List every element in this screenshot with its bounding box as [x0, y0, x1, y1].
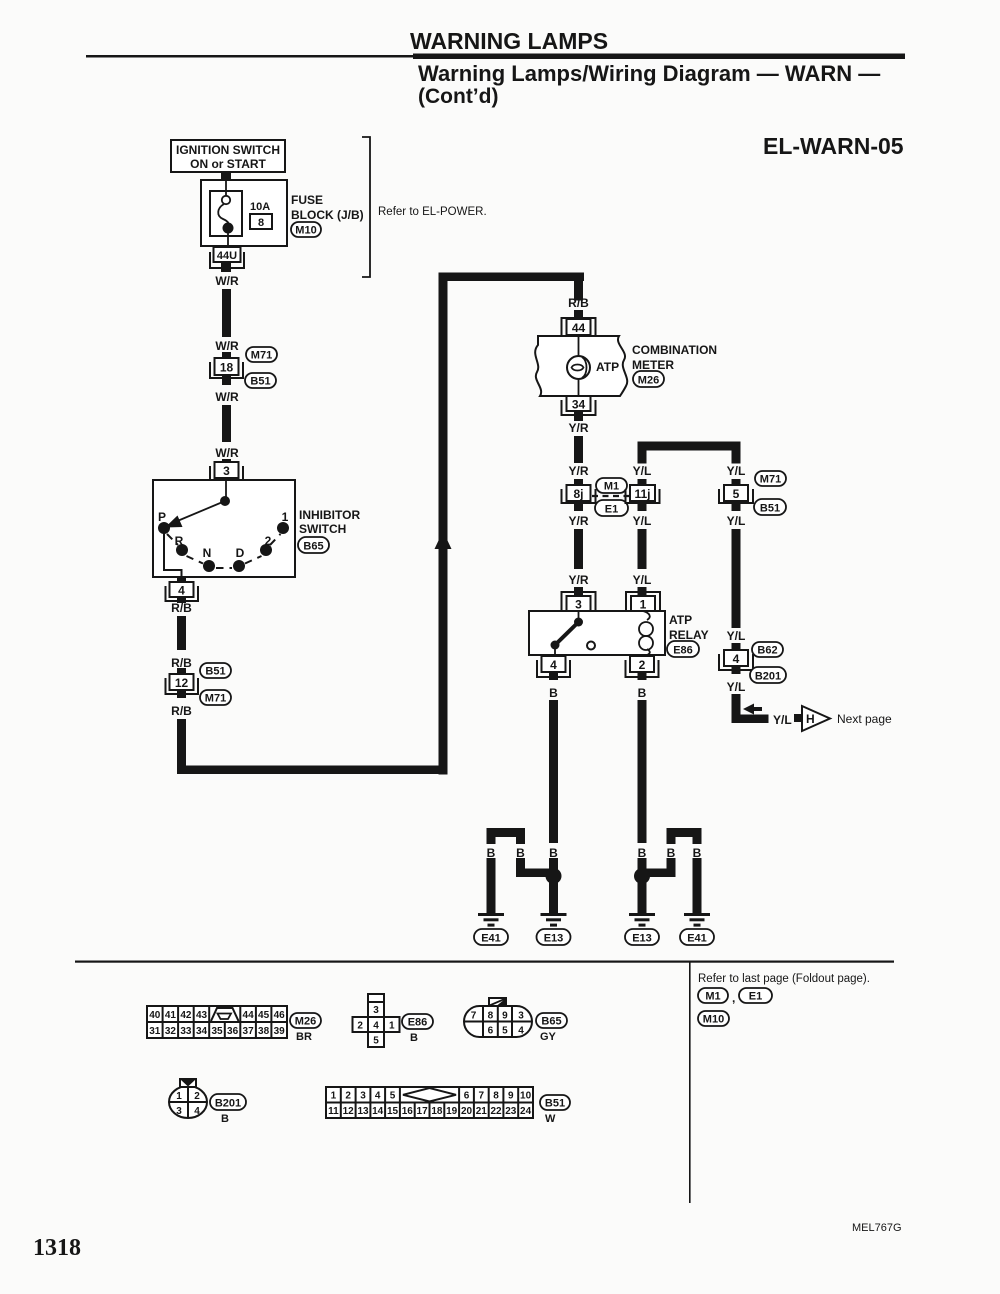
svg-text:1: 1: [640, 598, 647, 612]
svg-text:E1: E1: [749, 991, 762, 1003]
svg-text:RELAY: RELAY: [669, 628, 709, 642]
svg-text:E41: E41: [481, 933, 501, 945]
svg-text:4: 4: [178, 584, 185, 598]
svg-text:M1: M1: [604, 481, 619, 493]
svg-text:3: 3: [176, 1106, 182, 1117]
svg-text:W/R: W/R: [215, 274, 239, 288]
svg-text:5: 5: [390, 1091, 396, 1102]
svg-text:3: 3: [223, 464, 230, 478]
svg-text:Y/L: Y/L: [727, 629, 746, 643]
svg-text:Y/L: Y/L: [773, 713, 792, 727]
svg-text:12: 12: [343, 1106, 355, 1117]
svg-text:2: 2: [265, 534, 272, 548]
svg-text:19: 19: [446, 1106, 458, 1117]
svg-text:10A: 10A: [250, 201, 270, 213]
svg-text:Y/L: Y/L: [633, 573, 652, 587]
svg-text:8: 8: [488, 1011, 494, 1022]
svg-text:METER: METER: [632, 358, 674, 372]
svg-text:12: 12: [175, 676, 189, 690]
svg-text:1318: 1318: [33, 1235, 81, 1261]
svg-text:20: 20: [461, 1106, 473, 1117]
svg-text:22: 22: [490, 1106, 502, 1117]
svg-text:B: B: [549, 686, 558, 700]
svg-text:W/R: W/R: [215, 390, 239, 404]
svg-text:4: 4: [194, 1106, 200, 1117]
svg-text:42: 42: [180, 1010, 192, 1021]
svg-text:Y/L: Y/L: [633, 514, 652, 528]
svg-text:44U: 44U: [217, 250, 237, 262]
svg-text:16: 16: [402, 1106, 414, 1117]
svg-text:Y/R: Y/R: [568, 573, 588, 587]
svg-text:2: 2: [639, 658, 646, 672]
svg-text:2: 2: [345, 1091, 351, 1102]
svg-text:38: 38: [258, 1026, 270, 1037]
svg-text:17: 17: [417, 1106, 429, 1117]
svg-text:R/B: R/B: [568, 296, 589, 310]
svg-text:4: 4: [375, 1091, 381, 1102]
svg-text:ON or START: ON or START: [190, 157, 266, 171]
svg-text:E13: E13: [544, 933, 564, 945]
svg-text:4: 4: [733, 652, 740, 666]
svg-text:E13: E13: [632, 933, 652, 945]
svg-text:3: 3: [518, 1011, 524, 1022]
svg-text:INHIBITOR: INHIBITOR: [299, 508, 360, 522]
svg-text:24: 24: [520, 1106, 532, 1117]
svg-text:M71: M71: [251, 350, 272, 362]
svg-text:37: 37: [243, 1026, 255, 1037]
svg-text:B: B: [221, 1113, 229, 1125]
svg-text:Y/L: Y/L: [727, 680, 746, 694]
svg-text:FUSE: FUSE: [291, 193, 323, 207]
svg-text:4: 4: [550, 658, 557, 672]
svg-text:15: 15: [387, 1106, 399, 1117]
svg-text:MEL767G: MEL767G: [852, 1222, 902, 1234]
svg-text:34: 34: [572, 398, 586, 412]
svg-text:COMBINATION: COMBINATION: [632, 343, 717, 357]
svg-text:4: 4: [518, 1026, 524, 1037]
svg-text:M1: M1: [705, 991, 720, 1003]
svg-text:8: 8: [258, 217, 264, 229]
svg-text:6: 6: [488, 1026, 494, 1037]
svg-text:B: B: [516, 846, 525, 860]
svg-text:B201: B201: [755, 671, 781, 683]
svg-text:2: 2: [357, 1021, 363, 1032]
svg-text:1: 1: [176, 1091, 182, 1102]
svg-text:34: 34: [196, 1026, 208, 1037]
svg-text:B: B: [549, 846, 558, 860]
svg-text:BLOCK (J/B): BLOCK (J/B): [291, 208, 364, 222]
svg-text:E1: E1: [605, 504, 618, 516]
svg-text:SWITCH: SWITCH: [299, 522, 346, 536]
svg-text:B65: B65: [541, 1016, 561, 1028]
svg-text:44: 44: [572, 321, 586, 335]
svg-text:Warning Lamps/Wiring Diagram —: Warning Lamps/Wiring Diagram — WARN —: [418, 61, 880, 86]
svg-text:R/B: R/B: [171, 601, 192, 615]
svg-text:B: B: [410, 1032, 418, 1044]
svg-text:GY: GY: [540, 1031, 557, 1043]
svg-text:R: R: [175, 534, 184, 548]
svg-text:R/B: R/B: [171, 656, 192, 670]
svg-text:B51: B51: [760, 503, 780, 515]
svg-text:B: B: [487, 846, 496, 860]
svg-text:Y/R: Y/R: [568, 464, 588, 478]
svg-text:Y/L: Y/L: [633, 464, 652, 478]
svg-text:23: 23: [505, 1106, 517, 1117]
svg-text:8: 8: [493, 1091, 499, 1102]
svg-text:B201: B201: [215, 1098, 241, 1110]
svg-text:M71: M71: [760, 474, 781, 486]
svg-text:R/B: R/B: [171, 704, 192, 718]
svg-text:M26: M26: [295, 1016, 316, 1028]
svg-text:Y/R: Y/R: [568, 514, 588, 528]
svg-text:14: 14: [372, 1106, 384, 1117]
svg-text:9: 9: [502, 1011, 508, 1022]
svg-text:W/R: W/R: [215, 339, 239, 353]
svg-text:1: 1: [331, 1091, 337, 1102]
svg-text:BR: BR: [296, 1031, 312, 1043]
svg-text:13: 13: [357, 1106, 369, 1117]
svg-text:WARNING LAMPS: WARNING LAMPS: [410, 28, 608, 54]
svg-text:D: D: [236, 546, 245, 560]
svg-text:B62: B62: [757, 645, 777, 657]
svg-text:41: 41: [165, 1010, 177, 1021]
svg-text:W: W: [545, 1113, 556, 1125]
svg-text:M26: M26: [638, 375, 659, 387]
svg-text:7: 7: [471, 1011, 477, 1022]
svg-text:B51: B51: [205, 666, 225, 678]
svg-text:2: 2: [194, 1091, 200, 1102]
svg-text:ATP: ATP: [596, 360, 619, 374]
svg-text:W/R: W/R: [215, 446, 239, 460]
svg-text:21: 21: [476, 1106, 488, 1117]
svg-text:10: 10: [520, 1091, 532, 1102]
svg-text:36: 36: [227, 1026, 239, 1037]
svg-text:Y/L: Y/L: [727, 514, 746, 528]
svg-text:45: 45: [258, 1010, 270, 1021]
svg-text:B: B: [638, 846, 647, 860]
svg-text:6: 6: [464, 1091, 470, 1102]
svg-text:Y/R: Y/R: [568, 421, 588, 435]
svg-text:B65: B65: [303, 541, 323, 553]
svg-text:ATP: ATP: [669, 613, 692, 627]
svg-text:33: 33: [180, 1026, 192, 1037]
svg-text:7: 7: [479, 1091, 485, 1102]
svg-text:5: 5: [502, 1026, 508, 1037]
svg-text:B: B: [693, 846, 702, 860]
svg-text:35: 35: [211, 1026, 223, 1037]
svg-text:M10: M10: [295, 225, 316, 237]
svg-text:H: H: [806, 712, 815, 726]
svg-text:(Cont’d): (Cont’d): [418, 85, 498, 108]
svg-text:M71: M71: [205, 693, 226, 705]
svg-text:B51: B51: [545, 1098, 565, 1110]
svg-text:Next page: Next page: [837, 712, 892, 726]
svg-text:44: 44: [243, 1010, 255, 1021]
svg-text:E41: E41: [687, 933, 707, 945]
svg-text:B: B: [667, 846, 676, 860]
svg-text:32: 32: [165, 1026, 177, 1037]
svg-text:E86: E86: [673, 645, 693, 657]
svg-text:3: 3: [575, 598, 582, 612]
svg-text:5: 5: [733, 487, 740, 501]
svg-text:31: 31: [149, 1026, 161, 1037]
svg-text:1: 1: [282, 510, 289, 524]
svg-text:39: 39: [274, 1026, 286, 1037]
svg-text:,: ,: [732, 991, 735, 1005]
svg-text:M10: M10: [703, 1014, 724, 1026]
svg-text:46: 46: [274, 1010, 286, 1021]
svg-text:3: 3: [373, 1005, 379, 1016]
svg-text:9: 9: [508, 1091, 514, 1102]
svg-text:43: 43: [196, 1010, 208, 1021]
svg-text:N: N: [203, 546, 212, 560]
svg-text:EL-WARN-05: EL-WARN-05: [763, 133, 904, 159]
svg-text:18: 18: [431, 1106, 443, 1117]
svg-text:1: 1: [389, 1021, 395, 1032]
svg-text:Y/L: Y/L: [727, 464, 746, 478]
svg-text:3: 3: [360, 1091, 366, 1102]
svg-text:Refer to last page (Foldout pa: Refer to last page (Foldout page).: [698, 973, 870, 985]
svg-text:B: B: [638, 686, 647, 700]
svg-text:8j: 8j: [573, 487, 583, 501]
svg-text:5: 5: [373, 1036, 379, 1047]
svg-text:40: 40: [149, 1010, 161, 1021]
svg-text:18: 18: [220, 361, 234, 375]
svg-text:E86: E86: [408, 1017, 428, 1029]
svg-text:IGNITION SWITCH: IGNITION SWITCH: [176, 143, 280, 157]
svg-text:Refer to EL-POWER.: Refer to EL-POWER.: [378, 206, 487, 218]
svg-text:B51: B51: [250, 376, 270, 388]
svg-text:11j: 11j: [634, 487, 650, 501]
svg-text:4: 4: [373, 1021, 379, 1032]
svg-text:P: P: [158, 510, 166, 524]
svg-text:11: 11: [328, 1106, 339, 1117]
